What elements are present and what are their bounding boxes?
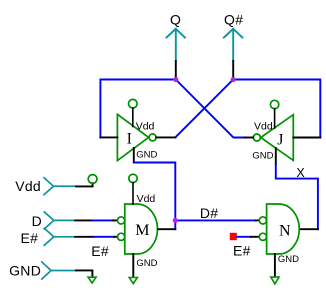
wire: top-left rail (Q net): [100, 80, 175, 138]
gate M pin label GND: [136, 258, 157, 269]
inverter I pin label Vdd: [136, 121, 155, 133]
svg-text:E#: E#: [91, 243, 109, 259]
wire: N GND pin stub down (black): [274, 254, 276, 276]
input port GND label: [9, 262, 41, 278]
svg-text:J: J: [277, 132, 283, 149]
gate M Vdd pin stub: [132, 183, 134, 204]
terminal circle Vdd port: [88, 175, 97, 184]
wire: J GND pin stub down (black): [275, 148, 277, 164]
wire: J input stub (black): [293, 137, 320, 139]
wire: J output stub (black): [245, 137, 253, 139]
wire: E# net segment (blue): [94, 236, 115, 238]
node E# label at gate M: [91, 243, 109, 259]
wire: I input stub (black): [100, 136, 117, 138]
svg-text:X: X: [296, 166, 305, 180]
wire: N output stub (black): [300, 228, 318, 230]
wire: D# net to gate N (blue): [175, 219, 255, 221]
inverter I name label: [127, 130, 132, 147]
svg-text:Vdd: Vdd: [136, 121, 155, 133]
wire: N input 2 stub (black): [251, 236, 259, 238]
svg-text:D: D: [32, 213, 42, 229]
svg-text:Vdd: Vdd: [254, 121, 273, 133]
gate M body: [125, 204, 158, 254]
inverter I output bubble: [149, 134, 156, 141]
inverter I body: [117, 114, 148, 160]
wire: I output stub (black): [156, 136, 175, 138]
wire: M input 1 stub (black): [113, 219, 117, 221]
input port GND flag: [42, 262, 76, 279]
svg-text:GND: GND: [9, 262, 41, 278]
svg-text:Q#: Q#: [224, 12, 243, 28]
wire: N input 1 stub (black): [255, 219, 258, 221]
wire: E# to N (blue): [237, 236, 251, 238]
inverter J Vdd pin stub: [274, 109, 276, 128]
ground symbol at GND port: [88, 277, 96, 283]
svg-text:E#: E#: [233, 242, 251, 258]
svg-text:Vdd: Vdd: [15, 178, 41, 194]
input port Vdd label: [15, 178, 41, 194]
gate M pin label Vdd: [137, 193, 156, 205]
input port E# label: [21, 230, 39, 246]
svg-text:D#: D#: [200, 205, 219, 221]
svg-text:GND: GND: [278, 254, 299, 265]
svg-text:GND: GND: [136, 258, 157, 269]
gate M name label: [135, 222, 149, 239]
inverter I pin label GND: [136, 149, 157, 160]
wire: E# net segment (black): [75, 236, 93, 238]
gate M input bubble 1: [118, 217, 125, 224]
inverter J name label: [277, 132, 283, 149]
inverter J pin label GND: [252, 150, 273, 161]
wire: D net segment (blue): [92, 219, 113, 221]
inverter J Vdd terminal circle: [270, 100, 278, 108]
svg-text:E#: E#: [21, 230, 39, 246]
gate M Vdd terminal circle: [129, 174, 137, 182]
junction dot D#: [173, 218, 178, 223]
node Q label: [170, 12, 181, 28]
gate N name label: [279, 222, 291, 239]
node X label: [296, 166, 305, 180]
wire: Q pin stub (black): [175, 61, 177, 80]
wire: Q# pin stub (black): [232, 61, 234, 80]
wire: top-right rail (Q# net): [233, 80, 320, 138]
output port Q arrow: [167, 29, 186, 61]
wire: cross diagonal Q to J output side: [176, 80, 245, 138]
inverter J body: [261, 115, 294, 161]
input port Vdd flag: [44, 178, 76, 195]
gate N pin label GND: [278, 254, 299, 265]
wire: I GND to D# node (blue): [134, 163, 176, 230]
node D# label: [200, 205, 219, 221]
gate N input bubble 1: [259, 217, 266, 224]
svg-text:N: N: [279, 222, 291, 239]
wire: X net J GND to N output (blue): [276, 164, 318, 229]
inverter J output bubble: [253, 134, 260, 141]
wire: GND port stub (black): [76, 270, 92, 276]
gate N body: [267, 204, 300, 254]
wire: M GND pin stub down (black): [132, 254, 134, 277]
svg-text:GND: GND: [136, 149, 157, 160]
svg-text:Q: Q: [170, 12, 181, 28]
wire: D net segment (black): [75, 219, 92, 221]
wire: M output stub (black): [158, 228, 175, 230]
junction dot Q#: [231, 77, 236, 82]
node E# label at gate N: [233, 242, 251, 258]
inverter I Vdd pin stub: [132, 108, 134, 126]
node Q# label: [224, 12, 243, 28]
input port E# flag: [44, 228, 75, 245]
ground symbol below gate N: [271, 277, 279, 284]
input source E# red square: [230, 233, 237, 240]
svg-text:GND: GND: [252, 150, 273, 161]
wire: M input 2 stub (black): [114, 236, 117, 238]
inverter J pin label Vdd: [254, 121, 273, 133]
output port Q# arrow: [224, 29, 243, 61]
gate N input bubble 2: [259, 233, 266, 240]
svg-text:I: I: [127, 130, 132, 147]
inverter I Vdd terminal circle: [129, 99, 138, 108]
junction dot Q: [173, 77, 178, 82]
wire: Vdd port stub (black): [76, 183, 93, 186]
ground symbol below gate M: [129, 278, 137, 284]
gate M input bubble 2: [118, 233, 125, 240]
input port D label: [32, 213, 42, 229]
wire: cross diagonal Q# to I output side: [175, 80, 233, 138]
svg-text:Vdd: Vdd: [137, 193, 156, 205]
svg-text:M: M: [135, 222, 149, 239]
wire: I GND pin stub down (black): [133, 148, 135, 163]
input port D flag: [44, 212, 75, 229]
